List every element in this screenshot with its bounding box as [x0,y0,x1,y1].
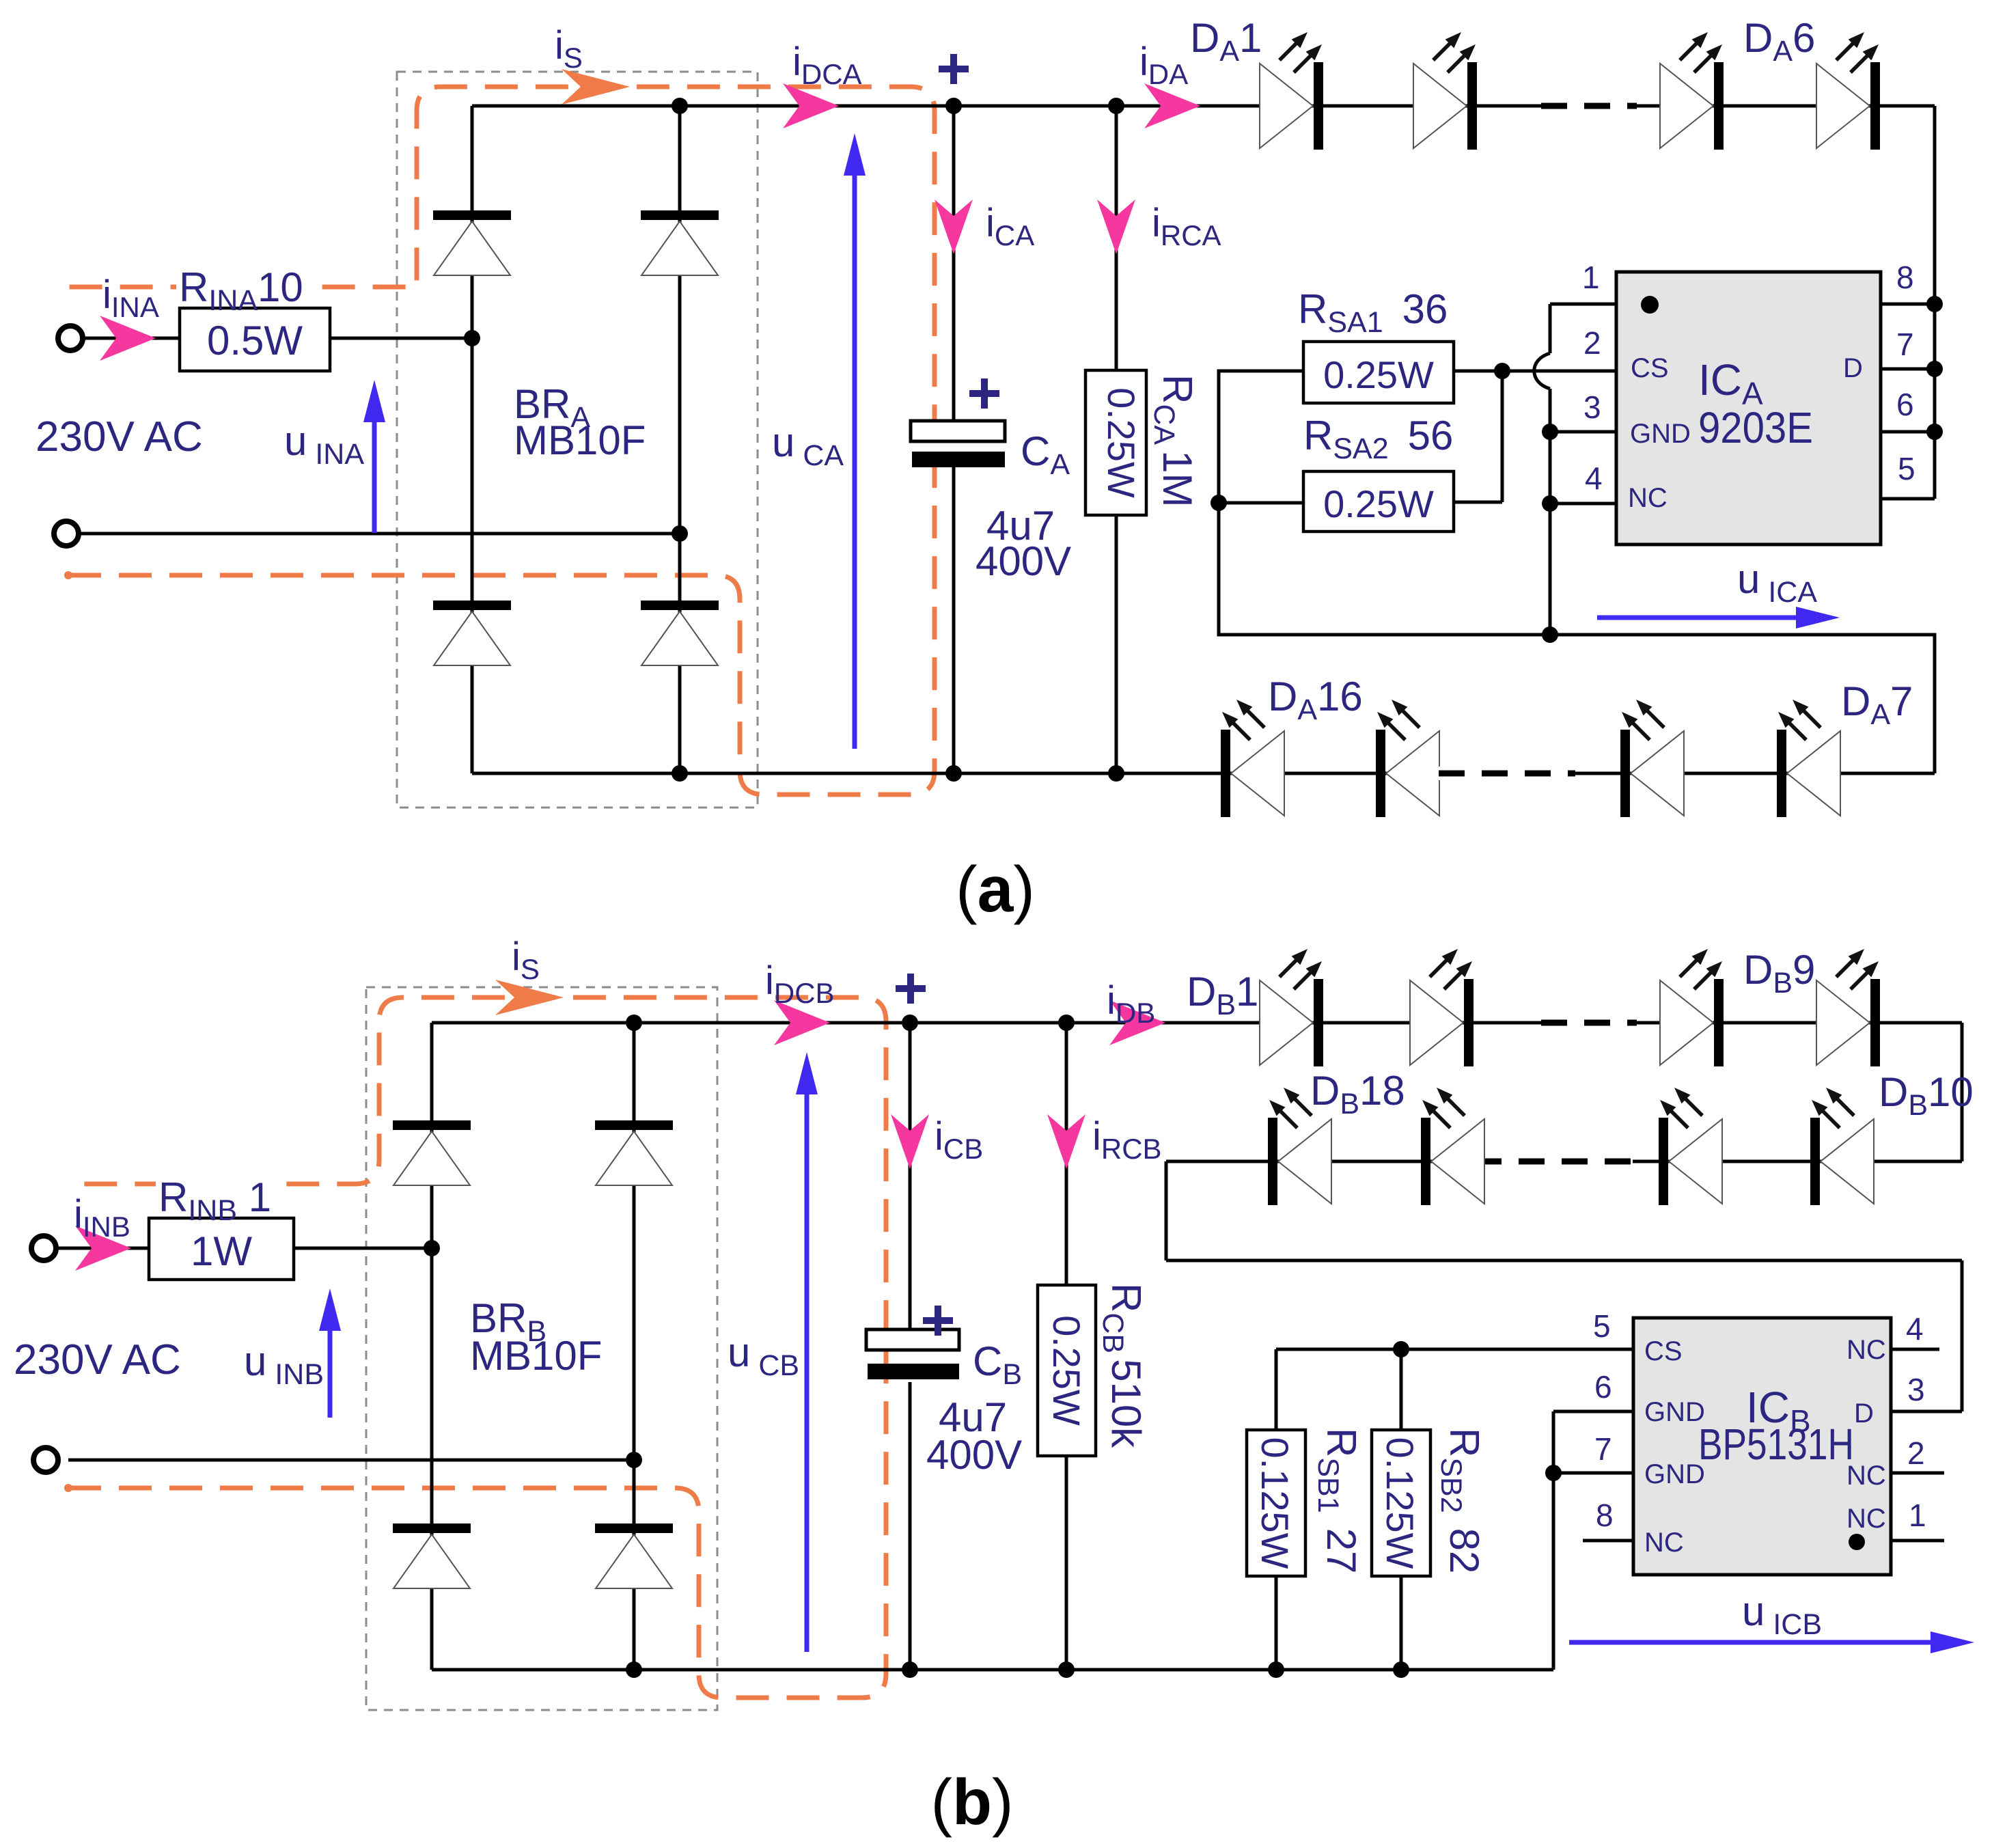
svg-text:4: 4 [1906,1311,1924,1347]
svg-text:NC: NC [1628,483,1668,513]
svg-text:230V AC: 230V AC [14,1336,181,1383]
svg-text:5: 5 [1898,451,1915,486]
svg-text:7: 7 [1594,1431,1612,1467]
svg-text:NC: NC [1846,1335,1886,1365]
svg-text:NC: NC [1846,1504,1886,1534]
svg-text:7: 7 [1896,327,1914,362]
svg-text:GND: GND [1644,1397,1705,1427]
svg-text:0.5W: 0.5W [207,318,303,363]
svg-text:3: 3 [1583,389,1601,425]
svg-text:8: 8 [1896,260,1914,295]
svg-text:D: D [1843,353,1863,383]
svg-text:(a): (a) [956,853,1035,926]
svg-text:400V: 400V [926,1432,1022,1478]
svg-text:0.125W: 0.125W [1379,1437,1422,1569]
svg-text:1: 1 [1582,260,1600,295]
svg-text:NC: NC [1644,1528,1684,1558]
svg-text:GND: GND [1644,1459,1705,1489]
svg-text:0.25W: 0.25W [1045,1315,1088,1426]
svg-text:1: 1 [1909,1498,1926,1533]
svg-text:(b): (b) [930,1766,1013,1838]
svg-text:MB10F: MB10F [470,1333,602,1379]
svg-text:5: 5 [1593,1308,1611,1344]
svg-text:0.125W: 0.125W [1254,1437,1297,1569]
svg-text:CS: CS [1644,1336,1683,1366]
svg-text:CS: CS [1631,353,1669,383]
svg-text:400V: 400V [976,538,1071,584]
svg-text:3: 3 [1907,1372,1925,1407]
svg-text:6: 6 [1594,1369,1612,1405]
svg-text:6: 6 [1896,387,1914,422]
svg-text:D: D [1854,1398,1874,1429]
svg-text:MB10F: MB10F [514,417,646,463]
svg-text:2: 2 [1583,325,1601,361]
svg-text:2: 2 [1907,1435,1925,1471]
svg-text:RCB510k: RCB510k [1096,1283,1149,1448]
svg-text:0.25W: 0.25W [1323,482,1434,525]
svg-text:9203E: 9203E [1698,403,1813,452]
svg-text:BP5131H: BP5131H [1698,1420,1854,1469]
svg-text:0.25W: 0.25W [1100,387,1143,498]
svg-text:8: 8 [1596,1498,1614,1533]
svg-text:230V AC: 230V AC [36,413,203,460]
svg-text:GND: GND [1630,419,1691,449]
svg-text:0.25W: 0.25W [1323,353,1434,396]
svg-text:1W: 1W [191,1228,252,1274]
svg-text:4: 4 [1585,460,1603,496]
